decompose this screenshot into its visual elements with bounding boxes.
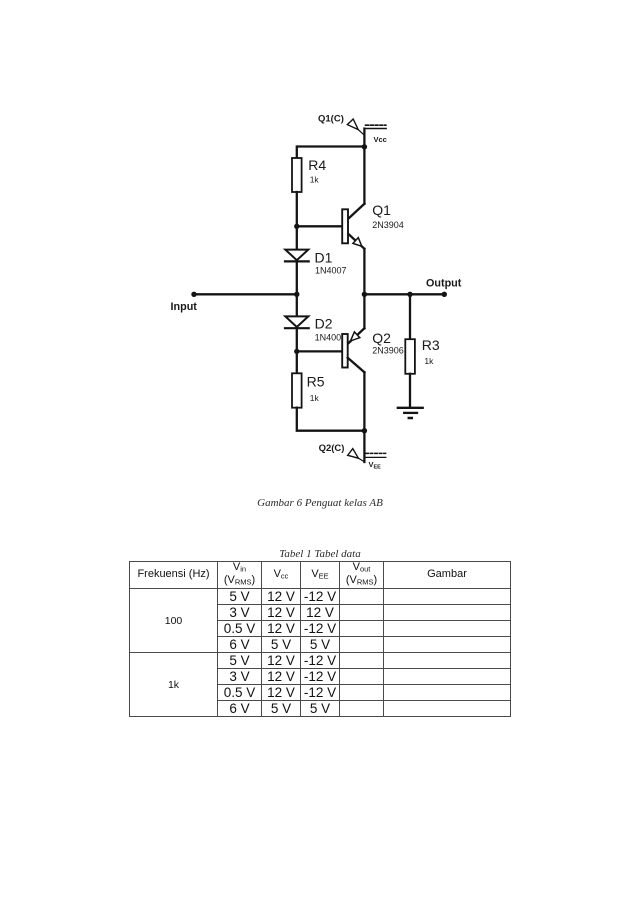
- resistor R3: [405, 337, 440, 374]
- svg-text:1k: 1k: [310, 175, 320, 185]
- wire D2 to Q2 base node: [296, 328, 298, 351]
- svg-text:Q1: Q1: [372, 202, 391, 218]
- wire R3 top: [409, 294, 411, 339]
- svg-text:D1: D1: [315, 250, 333, 266]
- diode D1: [285, 250, 347, 276]
- svg-text:1k: 1k: [424, 356, 434, 366]
- wire base node to D1: [296, 226, 298, 250]
- node Vcc junction: [362, 144, 367, 149]
- probe Q2(C): [348, 449, 365, 462]
- wire input: [194, 293, 297, 295]
- node input terminal: [191, 292, 196, 297]
- supply symbol Vee: [365, 453, 386, 457]
- wire input node to D2: [296, 294, 298, 317]
- transistor Q2: [342, 294, 404, 430]
- svg-text:Q2(C): Q2(C): [319, 443, 345, 454]
- wire Vee stub: [363, 431, 365, 462]
- svg-text:VEE: VEE: [369, 460, 382, 471]
- svg-text:1N4007: 1N4007: [315, 266, 347, 276]
- wire output rail: [364, 293, 444, 295]
- svg-text:R4: R4: [308, 157, 326, 173]
- ground: [398, 408, 423, 418]
- probe Q1(C): [347, 119, 364, 135]
- wire R5 bottom: [297, 408, 365, 431]
- svg-text:2N3906: 2N3906: [372, 346, 404, 356]
- wire R3 bottom: [409, 374, 411, 408]
- wire Q2 base: [297, 350, 343, 352]
- svg-text:R3: R3: [422, 337, 440, 353]
- svg-text:1k: 1k: [310, 393, 320, 403]
- wire D1 to input node: [296, 261, 298, 294]
- node bottom junction: [362, 428, 367, 433]
- wire top rail Vcc: [297, 147, 365, 159]
- resistor R4: [292, 157, 326, 192]
- svg-text:Vcc: Vcc: [374, 135, 387, 144]
- wire Vcc stub: [363, 129, 365, 147]
- data table: [129, 561, 511, 717]
- transistor Q1: [342, 147, 404, 294]
- wire R4 to base node: [296, 192, 298, 226]
- svg-text:Input: Input: [171, 301, 198, 313]
- node R3 junction: [407, 292, 412, 297]
- node Q1 base junction: [294, 224, 299, 229]
- svg-text:Q1(C): Q1(C): [318, 114, 344, 125]
- caption: Tabel 1 Tabel data: [229, 548, 411, 560]
- svg-text:R5: R5: [307, 374, 325, 390]
- node emitter junction: [362, 292, 367, 297]
- diode D2: [285, 316, 346, 343]
- svg-text:D2: D2: [315, 316, 333, 332]
- svg-text:2N3904: 2N3904: [372, 220, 404, 230]
- wire Q1 base: [297, 225, 343, 227]
- svg-text:Q2: Q2: [372, 330, 391, 346]
- node output terminal: [442, 292, 447, 297]
- svg-text:Output: Output: [426, 277, 462, 289]
- caption: Gambar 6 Penguat kelas AB: [229, 497, 411, 509]
- resistor R5: [292, 373, 325, 407]
- node Q2 base junction: [294, 349, 299, 354]
- supply symbol Vcc: [365, 125, 387, 128]
- wire node to R5: [296, 351, 298, 373]
- node input junction: [294, 292, 299, 297]
